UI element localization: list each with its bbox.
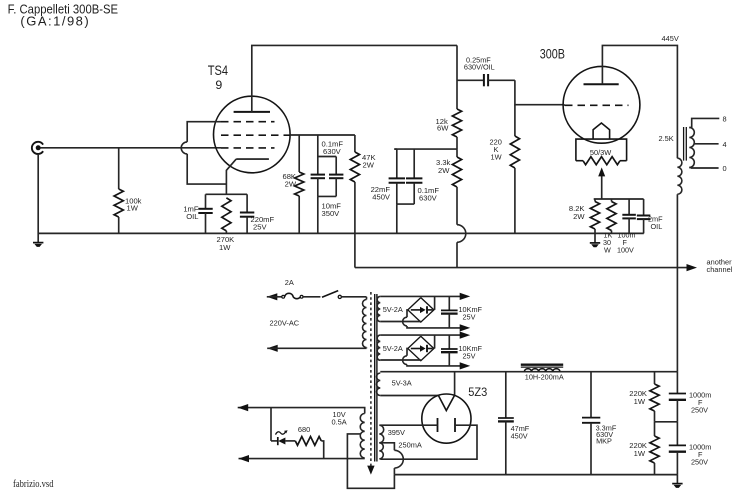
- 300B plate: [584, 83, 619, 85]
- wire coupling to 300B grid: [515, 80, 563, 104]
- resistor 270K 1W: [222, 198, 231, 231]
- resistor 3.3k 2W: [456, 149, 458, 157]
- svg-text:8: 8: [723, 114, 727, 123]
- svg-text:50/3W: 50/3W: [590, 148, 611, 157]
- 300B filament: [593, 123, 610, 139]
- ground symbol PSU: [676, 475, 678, 484]
- wire cap midpoint: [655, 421, 678, 423]
- resistor 12k 6W: [456, 45, 458, 109]
- capacitor 22mF 450V: [394, 148, 397, 150]
- 5Z3 filament: [438, 395, 454, 410]
- capacitor pair 0.1mF 630V / 10mF 350V: [317, 135, 319, 157]
- winding 5V-2A upper: [377, 296, 380, 321]
- svg-text:2W: 2W: [438, 166, 450, 175]
- svg-text:250mA: 250mA: [398, 440, 421, 449]
- TS4 grid g1 dashed: [221, 147, 275, 149]
- capacitor 1000mF 250V upper: [676, 372, 678, 394]
- wire TS4 cathode lead: [226, 159, 236, 194]
- svg-text:25V: 25V: [463, 351, 476, 360]
- OPT tap 0: [689, 167, 718, 170]
- 300B cathode bus: [594, 198, 644, 200]
- wire input signal: [40, 147, 221, 149]
- svg-text:630V: 630V: [323, 147, 342, 156]
- DC output arrows bridge 1: [460, 293, 471, 300]
- svg-text:4: 4: [723, 140, 727, 149]
- wire TS4 g2 node: [290, 134, 355, 136]
- grid box g3-cathode strap with hop: [187, 122, 221, 142]
- PSU ground bus: [394, 474, 677, 476]
- tube TS4 envelope: [214, 96, 291, 173]
- winding 5V-2A lower: [377, 335, 380, 360]
- svg-text:25V: 25V: [463, 313, 476, 322]
- svg-text:1W: 1W: [219, 243, 231, 252]
- B+ bus from rectifier: [380, 371, 677, 373]
- wire input jack to ground bus: [37, 154, 39, 243]
- capacitor 3.3mF 630V MKP: [590, 372, 592, 418]
- svg-text:2W: 2W: [573, 212, 585, 221]
- svg-text:5V-2A: 5V-2A: [383, 305, 403, 314]
- AC neutral arrow: [267, 345, 278, 352]
- resistor 100k 1W: [118, 148, 120, 189]
- svg-text:channel: channel: [707, 265, 733, 274]
- svg-text:OIL: OIL: [186, 212, 198, 221]
- TS4 cathode: [236, 158, 269, 160]
- TS4 grid g3 dashed: [221, 121, 275, 123]
- svg-text:630V: 630V: [419, 194, 438, 203]
- AC live arrow: [267, 293, 278, 300]
- input jack J1: [32, 142, 43, 154]
- resistor 220K 1W lower: [654, 422, 656, 436]
- svg-text:250V: 250V: [691, 406, 708, 415]
- wire 5V-3A to 5Z3 filament: [380, 395, 438, 397]
- svg-text:OIL: OIL: [651, 222, 663, 231]
- pilot LED: [270, 408, 272, 441]
- wire center tap to 10V tap loop: [347, 434, 394, 488]
- svg-text:300B: 300B: [540, 47, 565, 62]
- ground symbol input: [33, 242, 43, 244]
- svg-text:2W: 2W: [363, 160, 375, 169]
- svg-text:100V: 100V: [617, 245, 634, 254]
- capacitor 2mF OIL: [643, 199, 645, 216]
- wire 300B grid: [563, 104, 565, 107]
- svg-text:9: 9: [215, 78, 222, 92]
- svg-text:250V: 250V: [691, 458, 708, 467]
- svg-text:5Z3: 5Z3: [468, 385, 487, 399]
- svg-text:fabrizio.vsd: fabrizio.vsd: [13, 479, 54, 490]
- svg-text:395V: 395V: [388, 428, 405, 437]
- svg-text:MKP: MKP: [596, 436, 612, 445]
- hum pot wiper arrow: [601, 176, 603, 199]
- wire 300B plate to 445V node: [602, 45, 677, 158]
- 300B grid dashed: [565, 104, 629, 106]
- wire 395V top to left plate: [380, 424, 437, 426]
- OPT core: [683, 127, 685, 161]
- svg-text:450V: 450V: [511, 432, 528, 441]
- winding 395V 250mA: [379, 425, 383, 443]
- power transformer primary winding: [366, 297, 368, 300]
- TS4 plate: [234, 111, 270, 113]
- OPT tap 8: [689, 118, 719, 127]
- decoupling node wire: [394, 148, 457, 150]
- capacitor 1mF OIL: [205, 194, 207, 209]
- svg-text:(GA:1/98): (GA:1/98): [20, 14, 90, 29]
- svg-text:2W: 2W: [285, 179, 297, 188]
- svg-text:0: 0: [723, 164, 727, 173]
- wire 47K to B+ rail: [354, 182, 356, 268]
- svg-text:220V-AC: 220V-AC: [270, 318, 300, 327]
- resistor 1K 30W: [611, 199, 613, 202]
- svg-text:25V: 25V: [253, 222, 267, 231]
- svg-text:W: W: [604, 245, 611, 254]
- core earth arrow: [367, 466, 374, 475]
- fuse 2A: [282, 295, 285, 298]
- svg-text:680: 680: [298, 425, 310, 434]
- resistor 47K 2W: [354, 135, 356, 152]
- wire right plate return: [380, 425, 477, 459]
- svg-text:1W: 1W: [634, 397, 646, 406]
- bridge rectifier 1: [380, 295, 466, 297]
- svg-text:630V/OIL: 630V/OIL: [464, 63, 495, 72]
- svg-text:2A: 2A: [285, 278, 294, 287]
- wire HV center tap with hop: [380, 443, 394, 451]
- capacitor 0.25mF 630V/OIL coupling: [457, 79, 484, 81]
- svg-text:0.5A: 0.5A: [332, 418, 347, 427]
- power transformer core: [370, 292, 372, 466]
- winding 10V 0.5A: [238, 408, 365, 414]
- winding 5V-3A: [377, 373, 381, 396]
- capacitor 1000mF 250V lower: [676, 422, 678, 446]
- wire OPT primary to B+: [676, 194, 678, 372]
- svg-text:350V: 350V: [322, 209, 341, 218]
- resistor 220K 1W upper: [654, 372, 656, 384]
- resistor 220K 1W grid leak: [514, 105, 516, 136]
- capacitor 47mF 450V: [505, 372, 507, 418]
- ground symbol 300B cathode: [594, 233, 596, 243]
- capacitor 0.1mF 630V (driver): [413, 149, 415, 178]
- cathode network top bus: [206, 193, 248, 195]
- TS4 grid g2 dashed: [221, 134, 290, 136]
- bridge rectifier 2: [380, 334, 466, 336]
- tube 300B envelope: [563, 66, 640, 143]
- resistor 680: [285, 440, 295, 442]
- capacitor 10KmF 25V upper: [448, 296, 450, 310]
- B+ rail to another channel: [355, 267, 688, 269]
- svg-text:450V: 450V: [372, 193, 391, 202]
- hop over ground bus: [457, 225, 466, 243]
- resistor 68K 2W: [298, 135, 300, 172]
- 10V winding arrows: [238, 404, 249, 411]
- svg-text:2.5K: 2.5K: [659, 134, 674, 143]
- svg-text:1W: 1W: [634, 449, 646, 458]
- 5Z3 plates: [437, 418, 439, 432]
- DC output arrows bridge 2: [460, 332, 471, 339]
- OPT secondary: [689, 128, 694, 168]
- svg-text:10H-200mA: 10H-200mA: [525, 372, 564, 381]
- svg-text:1W: 1W: [491, 152, 502, 161]
- rectifier tube 5Z3: [422, 394, 471, 443]
- svg-text:5V-3A: 5V-3A: [392, 379, 412, 388]
- output transformer primary 2.5K: [677, 158, 682, 194]
- choke 10H-200mA: [521, 364, 563, 366]
- svg-text:6W: 6W: [437, 124, 449, 133]
- capacitor 100mF 100V: [628, 199, 630, 215]
- svg-text:445V: 445V: [662, 34, 679, 43]
- hum pot 50/3W box: [576, 139, 627, 161]
- capacitor 220mF 25V: [246, 194, 248, 212]
- svg-text:5V-2A: 5V-2A: [383, 344, 403, 353]
- wire TS4 plate to top rail: [252, 45, 457, 112]
- power switch: [303, 296, 320, 298]
- OPT tap 4: [694, 143, 718, 145]
- ground bus: [38, 232, 644, 234]
- svg-text:TS4: TS4: [208, 63, 229, 78]
- svg-text:1W: 1W: [127, 203, 139, 212]
- capacitor 10KmF 25V lower: [448, 335, 450, 349]
- resistor 8.2K 2W: [594, 199, 596, 202]
